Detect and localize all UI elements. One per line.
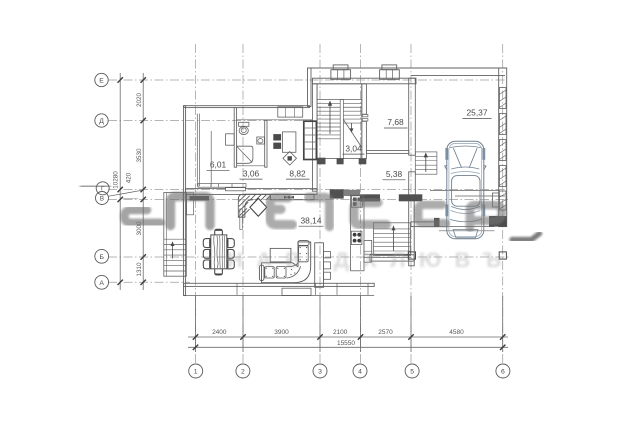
- kitchen counter along wall: [270, 194, 314, 200]
- grid row axis B: [108, 256, 509, 258]
- porch steps: [164, 238, 187, 240]
- stairwell up arrow left flight: [329, 103, 331, 135]
- grid row axis E: [108, 79, 507, 81]
- upper block top wall: [313, 78, 417, 84]
- garage door threshold: [439, 226, 495, 228]
- vertical dimension line total: [119, 73, 121, 290]
- svg-text:6,01: 6,01: [210, 160, 227, 170]
- dining table: [211, 235, 227, 269]
- dining chair top: [215, 229, 223, 235]
- terrace lower outline: [184, 294, 375, 296]
- svg-text:4: 4: [358, 369, 362, 376]
- sofa cushion 1: [265, 267, 274, 278]
- stairwell down arrow right flight: [351, 123, 353, 131]
- garage wall stub: [493, 193, 500, 207]
- bottom dimension line 2: [188, 346, 508, 348]
- sofa left armrest: [259, 265, 264, 280]
- vertical dimension line segments: [142, 73, 144, 290]
- svg-text:5: 5: [410, 369, 414, 376]
- coffee table: [270, 248, 291, 262]
- bottom dimension line 1: [188, 336, 508, 338]
- svg-text:420: 420: [126, 172, 133, 183]
- grid column axis 5: [410, 44, 412, 363]
- desk room 8.82: [282, 132, 296, 152]
- stairwell door symbol: [362, 114, 368, 116]
- roof outline top: [308, 67, 507, 69]
- garage bottom wall left part: [411, 222, 439, 227]
- svg-text:Е: Е: [99, 78, 104, 85]
- garage entry steps: [415, 152, 437, 174]
- stairwell outline: [317, 84, 362, 159]
- sofa L-shape outline: [262, 242, 311, 283]
- hall closet band above wall: [198, 184, 246, 188]
- svg-text:10280: 10280: [112, 171, 119, 189]
- interior thin line under top wall: [237, 119, 312, 121]
- door lintel in row V wall: [190, 196, 210, 201]
- car inner outline: [449, 143, 482, 236]
- svg-text:6: 6: [501, 369, 505, 376]
- living room bottom wall: [184, 283, 375, 286]
- bathroom bottom shelf line: [237, 165, 265, 167]
- svg-text:Д: Д: [99, 118, 104, 125]
- stairwell right wall: [362, 84, 367, 114]
- svg-text:3: 3: [318, 369, 322, 376]
- living room right wing wall vertical: [409, 199, 415, 265]
- tv speaker boxes: [324, 252, 331, 258]
- bottom extension lines: [195, 296, 197, 352]
- kitchen sink diamond: [250, 198, 267, 216]
- chimney stack 1: [331, 70, 351, 80]
- wardrobe top: [278, 107, 303, 117]
- toilet: [239, 122, 249, 126]
- grid column axis 6: [502, 44, 504, 363]
- sofa cushion vertical: [299, 246, 309, 262]
- bed wardrobe unit: [304, 121, 317, 159]
- watermark leading dash: [82, 183, 109, 189]
- dim ticks left column: [141, 77, 146, 82]
- axis circle 5: [405, 364, 419, 378]
- svg-text:25,37: 25,37: [467, 108, 488, 118]
- sofa dots: [266, 268, 267, 269]
- svg-text:2020: 2020: [136, 93, 143, 108]
- axis circle G: [96, 182, 109, 195]
- row V wall across left block: [186, 189, 317, 195]
- svg-text:3,04: 3,04: [345, 143, 362, 153]
- grid row axis V: [108, 198, 508, 200]
- stairwell bottom wall stubs: [317, 158, 325, 165]
- top wall step connector: [308, 68, 312, 107]
- dining chairs left: [203, 239, 210, 248]
- wall segment below garage steps: [409, 172, 416, 200]
- car tail trapezoid: [453, 230, 478, 238]
- kitchen corner unit: [238, 194, 270, 217]
- radiator by kitchen corner: [240, 209, 243, 230]
- watermark letter 4: [309, 197, 330, 226]
- axis circle V: [96, 192, 109, 205]
- svg-text:3,06: 3,06: [243, 168, 260, 178]
- grid row axis G: [108, 189, 505, 191]
- car wheel rear-right: [482, 205, 485, 217]
- svg-text:3900: 3900: [274, 329, 289, 336]
- svg-text:1310: 1310: [136, 262, 143, 277]
- axis circle 4: [353, 364, 367, 378]
- svg-text:38,14: 38,14: [301, 215, 322, 225]
- svg-text:Б: Б: [99, 254, 104, 261]
- shower cabin: [237, 146, 253, 163]
- grid column axis 3: [319, 44, 321, 363]
- kitchen tall counter right: [351, 195, 364, 271]
- axis circle A: [95, 275, 109, 289]
- car trunk line: [451, 220, 482, 222]
- dining chairs right: [227, 239, 234, 248]
- watermark letter 7: [470, 205, 502, 227]
- stairs bottom edge lines: [365, 253, 411, 255]
- sofa corner wedge arc: [287, 267, 301, 279]
- svg-text:2: 2: [241, 369, 245, 376]
- bottom dim ticks: [193, 334, 198, 339]
- car windshield pillar left: [454, 149, 462, 168]
- row V wall chunk left of stairwell bottom: [330, 189, 344, 198]
- svg-text:1: 1: [194, 369, 198, 376]
- car wheel front-left: [445, 148, 448, 160]
- car cowl line: [451, 172, 480, 174]
- svg-text:2570: 2570: [378, 329, 393, 336]
- terrace step block: [282, 288, 311, 295]
- car mirror right: [484, 166, 486, 170]
- svg-text:8,82: 8,82: [289, 168, 306, 178]
- wall between 7.68 and 5.38: [366, 151, 409, 154]
- garage wall window hatches: [499, 88, 506, 109]
- bathroom right wall: [265, 120, 267, 167]
- stairwell treads left flight: [317, 102, 340, 104]
- row V wall chunk at grid 4: [360, 194, 380, 201]
- axis leader line V to G row: [109, 190, 143, 196]
- sofa cushion 2: [276, 267, 286, 278]
- porch arrow: [172, 244, 174, 259]
- svg-text:3530: 3530: [136, 148, 143, 163]
- kitchen faucet: [288, 196, 291, 199]
- watermark trailing dash: [512, 234, 540, 240]
- grid column axis 2: [242, 44, 244, 363]
- watermark small fragment: [124, 196, 137, 201]
- watermark letter 5: [354, 203, 387, 225]
- grid column axis 1: [195, 44, 197, 363]
- svg-text:2400: 2400: [212, 329, 227, 336]
- stairwell central stringer: [340, 100, 343, 159]
- bottom wall window mullions: [236, 283, 238, 295]
- car cabin: [452, 176, 480, 207]
- car wheel rear-left: [445, 205, 448, 217]
- stairwell treads right flight: [343, 102, 361, 104]
- fridge: [364, 240, 372, 262]
- svg-text:7,68: 7,68: [387, 117, 404, 127]
- car rear window band: [452, 207, 480, 210]
- svg-text:15550: 15550: [337, 340, 355, 347]
- right wing bottom wall: [370, 255, 414, 261]
- car mirror left: [445, 166, 447, 170]
- porch inner lines: [166, 193, 168, 277]
- car front bumper line: [451, 146, 481, 148]
- svg-text:4580: 4580: [449, 329, 464, 336]
- axis circle 1: [189, 364, 203, 378]
- axis circle B: [95, 249, 109, 263]
- axis circle D: [95, 114, 108, 127]
- garage bottom wall dark corner right: [489, 216, 507, 227]
- axis circle 3: [313, 364, 327, 378]
- chimney stack 2: [380, 70, 400, 80]
- car wheel front-right: [482, 148, 485, 160]
- svg-text:НАВ ДХЛЮВЪ: НАВ ДХЛЮВЪ: [227, 248, 515, 272]
- axis circle E: [95, 73, 108, 86]
- watermark letter 1: [125, 210, 161, 223]
- washbasin: [257, 137, 265, 144]
- hall closet lines: [196, 114, 198, 187]
- kitchen sink unit right: [352, 196, 363, 207]
- stairwell cut diagonal: [343, 120, 361, 148]
- row V wall window marks: [226, 188, 246, 191]
- sofa headrest top: [298, 241, 309, 246]
- door lintel row V wall middle: [344, 190, 360, 196]
- desk chair 2: [273, 143, 281, 149]
- watermark letter 2: [171, 197, 211, 226]
- svg-text:В: В: [100, 195, 104, 202]
- garage top wall inner line: [411, 74, 505, 76]
- car windshield base: [452, 167, 480, 169]
- garage steps arrow: [425, 155, 427, 173]
- row V wall chunk right: [399, 194, 423, 201]
- entrance porch outline: [164, 193, 187, 277]
- car windshield pillar right: [469, 149, 477, 168]
- svg-text:2100: 2100: [333, 329, 348, 336]
- grid row axis A: [108, 281, 190, 283]
- stove 4 burners: [351, 231, 362, 244]
- car body: [447, 141, 484, 239]
- hall desk by bathroom wall: [226, 134, 235, 145]
- right wing stairs arrow: [393, 228, 395, 251]
- stairwell landing line: [317, 99, 362, 101]
- svg-text:5,38: 5,38: [386, 169, 403, 179]
- garage interior shelf line: [430, 190, 500, 192]
- axis circle 2: [236, 364, 250, 378]
- tv stand: [315, 243, 324, 287]
- bathroom left wall: [234, 108, 236, 168]
- axis circle 6: [496, 364, 510, 378]
- watermark letter 6: [418, 205, 445, 224]
- left block / stairwell separating wall: [313, 84, 318, 191]
- svg-text:А: А: [99, 280, 104, 287]
- watermark letter 3: [270, 198, 293, 225]
- left outer wall: [184, 106, 186, 296]
- right wing stairs: [374, 223, 411, 256]
- garage door opening jamb left: [434, 218, 440, 227]
- bedroom diamond chair: [283, 152, 297, 166]
- wall right of 7.68 and 5.38: [409, 78, 416, 155]
- grid column axis 4: [360, 44, 362, 363]
- canopy column grid5: [408, 252, 415, 259]
- garage right wall: [499, 68, 507, 227]
- grid row axis D: [108, 120, 313, 122]
- entry closet: [187, 193, 194, 215]
- kitchen corner hatch: [239, 195, 246, 202]
- canopy column grid6: [499, 252, 506, 259]
- left block top wall: [184, 106, 310, 108]
- dining chair bottom: [215, 269, 223, 275]
- sofa corner inner arc: [286, 262, 298, 267]
- desk chair 1: [273, 134, 281, 140]
